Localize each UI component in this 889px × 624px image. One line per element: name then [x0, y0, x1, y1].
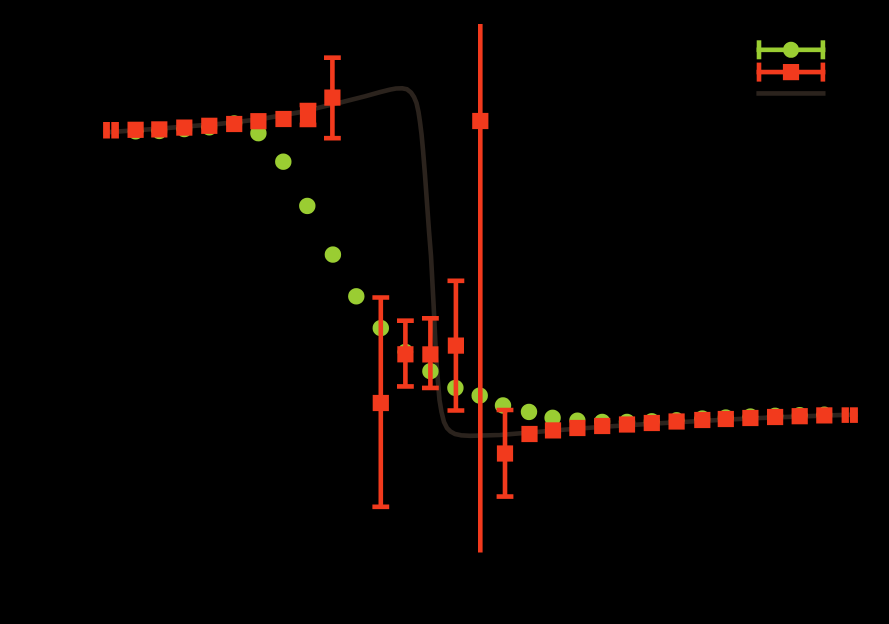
red clipped edge marker C1	[103, 122, 110, 139]
red data point R28	[816, 407, 832, 423]
red data point R1	[128, 122, 144, 138]
red data point R25	[742, 410, 758, 426]
green data point G22	[644, 413, 660, 429]
red error bar E2 at x=332.4	[324, 58, 341, 139]
green data point G29	[816, 407, 832, 423]
green data point G5	[226, 115, 242, 131]
green data point G8	[299, 198, 315, 214]
green data point G28	[792, 407, 808, 423]
red error bar E4 at x=405.4	[397, 321, 414, 387]
red error bar E6 at x=455.9	[448, 281, 465, 411]
green data point G19	[569, 413, 585, 429]
red data point R17	[545, 422, 561, 438]
red clipped edge marker C4	[850, 407, 858, 423]
red data point R9	[324, 90, 340, 106]
red data point R6	[250, 113, 266, 129]
green data point G2	[151, 123, 167, 139]
red data point R4	[201, 118, 217, 134]
red data point R27	[792, 408, 808, 424]
green data point G25	[718, 409, 734, 425]
fit curve (dark sigmoid-step model line)	[103, 88, 858, 436]
green data point G4	[201, 119, 217, 135]
red data point R13	[448, 338, 464, 354]
green data point G23	[668, 412, 684, 428]
red clipped edge marker C3	[842, 407, 849, 423]
legend green errorbar sample	[756, 40, 825, 59]
red data point R5	[226, 116, 242, 132]
red data point R20	[619, 416, 635, 432]
red data point R3	[176, 120, 192, 136]
red error bar E7 at x=505	[497, 410, 514, 497]
green data point G21	[619, 414, 635, 430]
green data point G27	[767, 408, 783, 424]
red data point R11	[397, 346, 413, 362]
green data point G1	[127, 123, 143, 139]
red data point R8	[300, 107, 316, 123]
red data point R16	[521, 426, 537, 442]
red data point R24	[718, 411, 734, 427]
red data point R18	[569, 420, 585, 436]
red data point R14	[472, 113, 488, 129]
red data point R10	[373, 395, 389, 411]
red error bar E3 at x=380.8	[372, 298, 389, 507]
red data point R2	[151, 121, 167, 137]
green data point G24	[694, 410, 710, 426]
red data point R12	[422, 346, 438, 362]
legend red errorbar sample	[756, 63, 825, 82]
green data point G14	[447, 380, 463, 396]
green data point G6	[250, 125, 266, 141]
green data point G9	[325, 246, 341, 262]
red data point R21	[644, 415, 660, 431]
tall red vertical error line at x=480	[478, 24, 483, 553]
green data point G20	[594, 414, 610, 430]
red data point R7	[275, 111, 291, 127]
red data point R19	[594, 418, 610, 434]
green data point G3	[176, 121, 192, 137]
green data point G16	[495, 397, 511, 413]
red clipped edge marker C2	[111, 122, 119, 139]
red data point R26	[767, 409, 783, 425]
green data point G11	[373, 320, 389, 336]
green data point G13	[422, 363, 438, 379]
green data point G10	[348, 288, 364, 304]
red data point R15	[497, 445, 513, 461]
green data point G12	[397, 344, 413, 360]
green data point G7	[275, 154, 291, 170]
green data point G15	[472, 387, 488, 403]
green data point G26	[742, 408, 758, 424]
red data point R23	[694, 412, 710, 428]
green data point G17	[521, 404, 537, 420]
red data point R22	[669, 413, 685, 429]
red error bar E5 at x=430.4	[422, 318, 439, 388]
green data point G18	[544, 410, 560, 426]
red error bar E1 at x=308	[300, 105, 317, 125]
legend fit-line sample	[756, 91, 825, 96]
